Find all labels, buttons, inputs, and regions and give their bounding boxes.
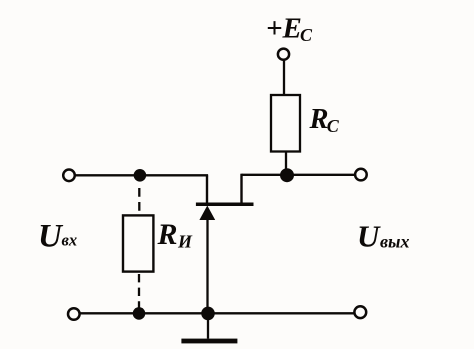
transistor VT (field-effect), channel bar + gate arrow — [196, 203, 254, 221]
dashed wire Ri bottom to bottom node — [138, 274, 140, 310]
node bottom-left junction — [133, 307, 146, 320]
svg-text:И: И — [177, 231, 193, 251]
wire bottom rail — [81, 312, 355, 314]
label Ri — [157, 218, 194, 252]
terminal bottom-right — [354, 306, 366, 318]
label U_vx (input voltage) — [38, 218, 77, 254]
svg-text:вх: вх — [62, 231, 78, 250]
node drain (junction Rc/drain/output) — [280, 168, 294, 182]
resistor Ri — [123, 215, 153, 271]
wire gate lead down to bottom rail — [206, 219, 208, 313]
terminal bottom-left — [68, 308, 80, 320]
svg-text:C: C — [300, 25, 313, 45]
wire Rc bottom to drain node — [285, 151, 287, 176]
label +Ec (supply) — [266, 13, 313, 46]
wire drain node to output terminal — [287, 174, 355, 176]
wire bend down to channel (source lead) — [206, 175, 208, 203]
terminal output top-right — [355, 169, 367, 181]
label Rc — [309, 104, 340, 136]
wire input rail (terminal to bend) — [76, 174, 209, 176]
terminal +Ec — [278, 49, 289, 60]
wire drain lead (horizontal from channel riser to node) — [242, 174, 288, 176]
svg-text:+E: +E — [266, 13, 302, 45]
label U_vyx (output voltage) — [357, 218, 410, 253]
wire Ec terminal to Rc top — [283, 61, 285, 96]
wire ground stub — [207, 313, 209, 338]
svg-text:R: R — [309, 104, 329, 135]
wire drain riser to channel — [240, 174, 242, 203]
dashed wire node to Ri top — [138, 188, 140, 215]
ground symbol — [181, 339, 237, 344]
svg-text:C: C — [327, 116, 340, 136]
resistor Rc — [271, 95, 300, 152]
svg-text:U: U — [357, 218, 381, 253]
node ground junction — [201, 307, 215, 321]
svg-text:U: U — [38, 218, 64, 254]
node gate/input junction — [134, 169, 147, 182]
terminal input top-left — [63, 170, 75, 182]
svg-text:вых: вых — [380, 232, 410, 252]
svg-text:R: R — [157, 218, 178, 251]
